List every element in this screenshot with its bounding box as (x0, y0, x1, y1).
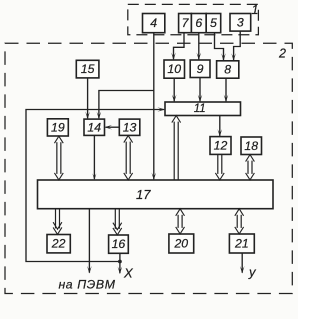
dashed enclosure 2 (5, 43, 292, 293)
svg-text:3: 3 (237, 15, 244, 29)
wire 15 to 14 (85, 78, 90, 119)
dashed enclosure 1 (128, 4, 259, 34)
svg-text:12: 12 (214, 139, 228, 153)
svg-text:11: 11 (194, 103, 206, 115)
block 7 (179, 14, 192, 33)
wire 10 to 11 (172, 78, 177, 102)
bus 17 to 16 (113, 209, 122, 235)
wire 11 to 12 (218, 116, 223, 137)
block 8 (217, 61, 239, 78)
wire 16 to X output (118, 253, 123, 274)
wire 3 to 8 (231, 31, 240, 61)
svg-text:17: 17 (136, 187, 151, 202)
block 18 (241, 137, 262, 155)
svg-text:5: 5 (210, 16, 217, 30)
svg-text:15: 15 (81, 62, 95, 76)
block 9 (190, 60, 210, 78)
bus 17 to 20 (176, 209, 185, 234)
svg-text:22: 22 (51, 237, 66, 251)
svg-text:на ПЭВМ: на ПЭВМ (58, 278, 115, 292)
block 11 (165, 102, 241, 116)
block 22 (47, 235, 70, 253)
svg-text:4: 4 (150, 16, 157, 30)
wire 4 to 17 (152, 33, 157, 180)
wire 9 to 11 (198, 78, 203, 103)
block 12 (210, 137, 231, 155)
block 14 (84, 119, 105, 135)
svg-text:9: 9 (197, 62, 204, 76)
svg-text:8: 8 (224, 63, 231, 77)
svg-text:10: 10 (167, 62, 181, 76)
block 5 (206, 14, 221, 33)
bus 17 to 11 (172, 116, 181, 180)
wire 8 to 11 (224, 78, 229, 102)
bus 17 to 22 (53, 209, 62, 235)
junction dot at 16 output (118, 260, 122, 264)
bus 13 to 17 (124, 136, 133, 180)
svg-text:14: 14 (87, 120, 101, 134)
block 13 (119, 119, 140, 135)
svg-text:7: 7 (182, 16, 190, 30)
wire 17 to PC output (87, 209, 92, 274)
svg-text:16: 16 (112, 237, 126, 251)
bus 12 to 17 (215, 155, 224, 180)
bus 17 to 21 (235, 209, 244, 234)
block 4 (143, 14, 165, 33)
block 6 (191, 14, 206, 33)
wire 5 to 8 (215, 33, 226, 61)
svg-text:13: 13 (123, 120, 137, 134)
svg-text:2: 2 (278, 47, 286, 61)
block 10 (164, 60, 185, 78)
block 19 (47, 119, 68, 136)
block 21 (229, 234, 254, 253)
svg-text:1: 1 (252, 3, 259, 17)
svg-text:18: 18 (244, 139, 258, 153)
svg-text:X: X (123, 266, 134, 281)
wire 21 to Y output (240, 253, 245, 273)
bus 18 to 17 (246, 155, 255, 180)
block 15 (76, 60, 99, 78)
bus 19 to 17 (54, 136, 63, 180)
block 20 (169, 234, 194, 253)
block 16 (109, 235, 129, 253)
wire 14 to 17 (92, 136, 96, 180)
wire branch 4-line to 14 (97, 91, 154, 120)
wire 7 to 10 (171, 33, 184, 60)
svg-text:20: 20 (173, 237, 188, 251)
svg-text:21: 21 (234, 237, 249, 251)
block 17 (38, 180, 274, 209)
block 3 (230, 14, 251, 32)
svg-text:6: 6 (195, 16, 202, 30)
wire 13 to 14 (105, 125, 120, 130)
wire 6 to 9 (197, 33, 202, 60)
svg-text:19: 19 (51, 120, 65, 134)
wire feedback 16 to 11 (26, 107, 165, 261)
